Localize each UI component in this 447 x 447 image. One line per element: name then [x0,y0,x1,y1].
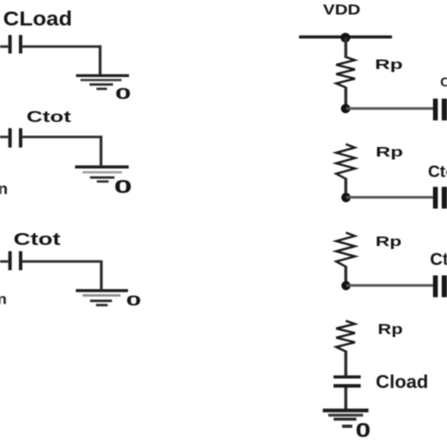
svg-text:Rp: Rp [376,144,404,160]
svg-text:0: 0 [356,420,371,442]
svg-text:Cload: Cload [376,372,429,392]
svg-text:n: n [0,291,7,308]
svg-text:Rp: Rp [376,233,402,249]
svg-text:n: n [0,181,8,198]
svg-text:VDD: VDD [323,3,361,19]
svg-text:Ctot: Ctot [430,249,447,269]
svg-text:Ctot: Ctot [14,229,61,249]
svg-text:Ctot: Ctot [428,163,447,181]
svg-text:0: 0 [126,293,141,310]
svg-text:Ctot: Ctot [440,75,447,90]
svg-text:Ctot: Ctot [27,109,73,126]
svg-text:Rp: Rp [375,56,403,72]
svg-text:Rp: Rp [378,321,403,338]
svg-text:CLoad: CLoad [3,8,72,31]
svg-text:0: 0 [114,176,132,197]
svg-text:0: 0 [115,86,131,103]
